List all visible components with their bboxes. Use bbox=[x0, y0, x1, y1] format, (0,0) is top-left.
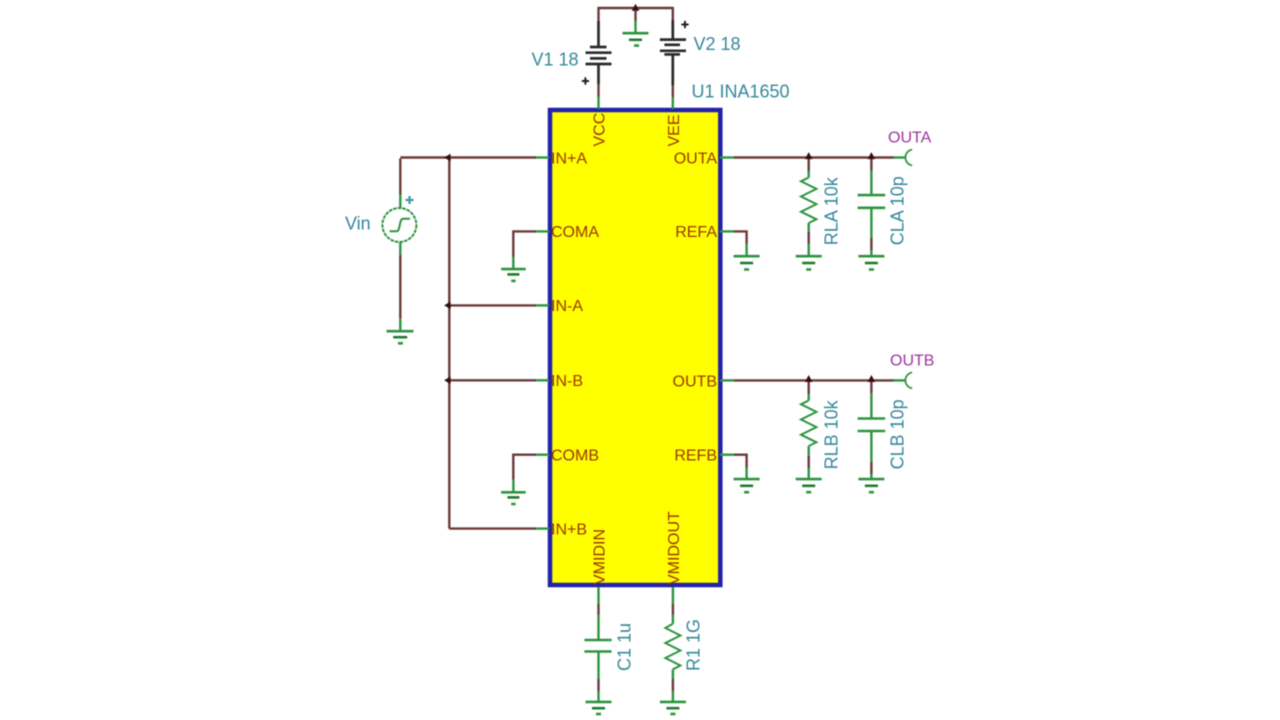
svg-text:IN-A: IN-A bbox=[551, 298, 583, 315]
svg-text:OUTA: OUTA bbox=[674, 150, 718, 167]
ground REFB bbox=[734, 479, 760, 492]
wire bus to IN-A bbox=[449, 304, 536, 306]
wire V1 bottom stub bbox=[597, 84, 599, 97]
REFB ground lead bbox=[745, 468, 747, 480]
ground C1 bbox=[586, 702, 612, 714]
wire V2 top stub bbox=[672, 7, 674, 20]
wire input bus vertical bbox=[448, 158, 450, 529]
junction top rail bbox=[632, 4, 640, 11]
VMIDOUT leads bbox=[672, 587, 674, 624]
wire RLA bottom bbox=[808, 231, 810, 244]
ground COMB bbox=[501, 492, 526, 504]
voltage source Vin bbox=[382, 208, 416, 242]
wire top rail V1 to V2 bbox=[599, 7, 673, 9]
capacitor CLB bbox=[858, 419, 886, 432]
wire V2 bottom stub bbox=[672, 85, 674, 97]
wire RLB top bbox=[808, 380, 810, 394]
COMA ground lead bbox=[512, 257, 514, 269]
wire V1 top stub bbox=[597, 7, 599, 21]
Vin top lead bbox=[399, 194, 401, 208]
RLA leads bbox=[808, 171, 810, 255]
capacitor CLA bbox=[858, 195, 886, 208]
battery V1 bbox=[586, 21, 612, 84]
pin COMB stub bbox=[536, 454, 549, 456]
junction OUTB-RLB bbox=[805, 375, 813, 382]
C1 bottom lead bbox=[597, 652, 599, 702]
wire C1 bottom bbox=[597, 679, 599, 691]
svg-text:R1 1G: R1 1G bbox=[684, 619, 704, 671]
REFA ground lead bbox=[745, 244, 747, 257]
wire CLA top bbox=[870, 158, 872, 171]
pin REFB stub bbox=[720, 454, 734, 456]
wire bus to IN-B bbox=[449, 379, 536, 381]
R1 bottom lead bbox=[672, 669, 674, 702]
top ground stem green bbox=[634, 21, 636, 34]
VMIDIN leads bbox=[597, 587, 599, 640]
COMB ground lead bbox=[512, 480, 514, 492]
pin REFA stub bbox=[720, 230, 734, 232]
Vin ground lead bbox=[399, 319, 401, 331]
ground CLB bbox=[858, 479, 884, 492]
svg-text:V2 18: V2 18 bbox=[694, 34, 741, 54]
junction bus IN+A bbox=[444, 154, 450, 162]
wire REFB to ground bbox=[734, 455, 747, 468]
resistor RLB bbox=[801, 401, 816, 447]
junction OUTA-RLA bbox=[805, 152, 813, 159]
pin IN-A stub bbox=[536, 304, 549, 306]
svg-text:RLB 10k: RLB 10k bbox=[822, 399, 842, 469]
OUTB terminal wire bbox=[894, 379, 907, 381]
svg-text:VCC: VCC bbox=[592, 113, 609, 147]
ground Vin bbox=[387, 331, 414, 343]
pin OUTA stub bbox=[720, 156, 734, 158]
ground CLA bbox=[858, 256, 884, 269]
pin VEE stub bbox=[672, 97, 674, 109]
wire VMIDOUT to R1 bbox=[672, 604, 674, 615]
svg-text:OUTA: OUTA bbox=[888, 130, 932, 147]
wire top ground stem bbox=[634, 8, 636, 21]
op-amp U1 INA1650 body bbox=[550, 110, 720, 585]
CLA leads bbox=[870, 171, 872, 256]
svg-text:OUTB: OUTB bbox=[890, 353, 934, 370]
svg-text:COMB: COMB bbox=[551, 448, 599, 465]
svg-text:RLA 10k: RLA 10k bbox=[822, 176, 842, 245]
svg-text:COMA: COMA bbox=[551, 224, 599, 241]
svg-text:CLA 10p: CLA 10p bbox=[888, 176, 908, 245]
resistor RLA bbox=[801, 178, 816, 224]
wire COMA to ground bbox=[513, 231, 536, 257]
svg-text:IN+B: IN+B bbox=[551, 521, 587, 538]
wire CLB top bbox=[870, 380, 872, 393]
pin IN-B stub bbox=[536, 379, 549, 381]
wire CLB bottom bbox=[870, 462, 872, 474]
svg-text:V1 18: V1 18 bbox=[532, 49, 579, 69]
svg-text:IN-B: IN-B bbox=[551, 373, 583, 390]
resistor R1 bbox=[665, 624, 680, 670]
svg-text:Vin: Vin bbox=[345, 214, 371, 234]
junction bus IN-A bbox=[444, 302, 450, 310]
RLB leads bbox=[808, 394, 810, 479]
wire RLA top bbox=[808, 158, 810, 172]
pin VCC stub bbox=[597, 97, 599, 110]
wire REFA to ground bbox=[734, 231, 747, 243]
svg-text:REFB: REFB bbox=[674, 448, 717, 465]
capacitor C1 bbox=[584, 640, 611, 652]
junction OUTB-CLB bbox=[868, 375, 876, 382]
wire bus to IN+B bbox=[449, 527, 536, 529]
junction OUTA-CLA bbox=[868, 152, 876, 159]
ground RLA bbox=[796, 256, 822, 269]
pin IN+A stub bbox=[536, 156, 549, 158]
wire RLB bottom bbox=[808, 455, 810, 468]
svg-text:OUTB: OUTB bbox=[673, 373, 717, 390]
ground REFA bbox=[734, 256, 760, 269]
output terminal OUTB bbox=[905, 373, 912, 389]
svg-text:VEE: VEE bbox=[666, 114, 683, 146]
pin COMA stub bbox=[536, 230, 549, 232]
wire CLA bottom bbox=[870, 238, 872, 250]
svg-text:C1 1u: C1 1u bbox=[615, 623, 635, 671]
OUTA terminal wire bbox=[894, 156, 907, 158]
wire COMB to ground bbox=[513, 455, 536, 480]
wire Vin top to IN+A bbox=[400, 158, 536, 195]
svg-text:VMIDIN: VMIDIN bbox=[592, 529, 609, 585]
output terminal OUTA bbox=[905, 150, 912, 166]
CLB leads bbox=[870, 393, 872, 479]
svg-text:VMIDOUT: VMIDOUT bbox=[666, 511, 683, 585]
pin IN+B stub bbox=[536, 527, 549, 529]
battery V1 plus sign bbox=[582, 77, 589, 84]
wire R1 bottom bbox=[672, 679, 674, 691]
ground COMA bbox=[501, 269, 526, 281]
wire OUTB net bbox=[734, 379, 894, 381]
svg-text:REFA: REFA bbox=[675, 224, 717, 241]
wire OUTA net bbox=[734, 156, 894, 158]
svg-text:U1 INA1650: U1 INA1650 bbox=[692, 82, 790, 102]
ground top center bbox=[623, 33, 649, 45]
pin OUTB stub bbox=[720, 379, 734, 381]
Vin plus sign bbox=[406, 196, 414, 204]
battery V2 bbox=[660, 20, 686, 85]
Vin bottom lead bbox=[399, 243, 401, 255]
battery V2 plus sign bbox=[681, 21, 688, 28]
ground R1 bbox=[660, 702, 686, 714]
junction bus IN-B bbox=[444, 376, 450, 384]
svg-text:CLB 10p: CLB 10p bbox=[888, 399, 908, 469]
ground RLB bbox=[796, 479, 822, 492]
svg-text:IN+A: IN+A bbox=[551, 150, 587, 167]
wire VMIDIN to C1 bbox=[597, 604, 599, 615]
wire Vin bottom bbox=[399, 255, 401, 319]
